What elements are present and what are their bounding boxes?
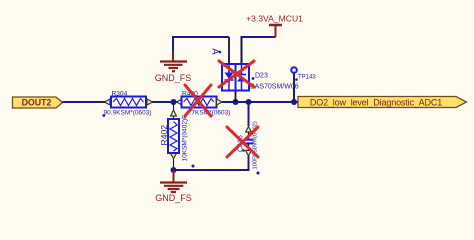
wire R304 to R400: [152, 101, 178, 103]
capacitor C416 (vertical, not fitted): [238, 102, 260, 175]
junction node (C416 tap): [246, 99, 252, 105]
ground GND_FS (top): [155, 51, 192, 83]
svg-text:TP143: TP143: [298, 74, 316, 80]
wire R400 to port: [222, 101, 298, 103]
port DOUT2: [13, 97, 63, 108]
power +3.3VA_MCU1: [246, 14, 303, 38]
pin (bottom common): [235, 91, 237, 103]
junction node (D23 pin): [233, 99, 239, 105]
body: [222, 64, 249, 91]
svg-text:R402: R402: [159, 125, 169, 146]
wire +3.3VA rail to D23: [242, 37, 276, 64]
diode D23 (dual clamp, not fitted): [210, 37, 299, 102]
port DO2_low_level_Diagnostic_ADC1: [298, 97, 467, 108]
wire bottom horizontal to C416: [174, 169, 249, 171]
svg-text:DOUT2: DOUT2: [22, 98, 52, 108]
svg-text:GND_FS: GND_FS: [155, 73, 192, 83]
svg-text:GND_FS: GND_FS: [155, 193, 192, 203]
test point TP143: [291, 67, 316, 102]
svg-text:DO2_low_level_Diagnostic_ADC1: DO2_low_level_Diagnostic_ADC1: [310, 97, 442, 107]
wire DOUT2 to R304: [63, 101, 107, 103]
junction node (TP143 tap): [291, 99, 297, 105]
no-fit cross over C416: [227, 127, 258, 157]
svg-text:10KSM*(0402)F: 10KSM*(0402)F: [182, 115, 189, 162]
svg-text:R304: R304: [112, 90, 128, 97]
pin (right, from +3.3VA): [241, 37, 243, 64]
svg-text:+3.3VA_MCU1: +3.3VA_MCU1: [246, 14, 303, 24]
right diode: [241, 64, 243, 75]
pin A (left, from GND wire): [228, 37, 230, 64]
wire top-left to GND: [173, 37, 229, 52]
no-fit cross over D23: [219, 61, 254, 87]
left diode: [228, 64, 230, 73]
resistor R400 (not fitted): [177, 90, 231, 117]
ground GND_FS (bottom): [155, 170, 192, 203]
resistor R402 (vertical): [159, 102, 194, 170]
resistor R304: [102, 90, 153, 117]
svg-text:D23: D23: [255, 73, 268, 80]
no-fit cross over R400: [185, 85, 211, 116]
junction node (bottom gnd net): [171, 167, 177, 173]
junction node (R402 tap): [171, 99, 177, 105]
svg-text:90.9KSM*(0603): 90.9KSM*(0603): [104, 110, 152, 117]
svg-text:BAS70SM/W06: BAS70SM/W06: [250, 84, 299, 91]
